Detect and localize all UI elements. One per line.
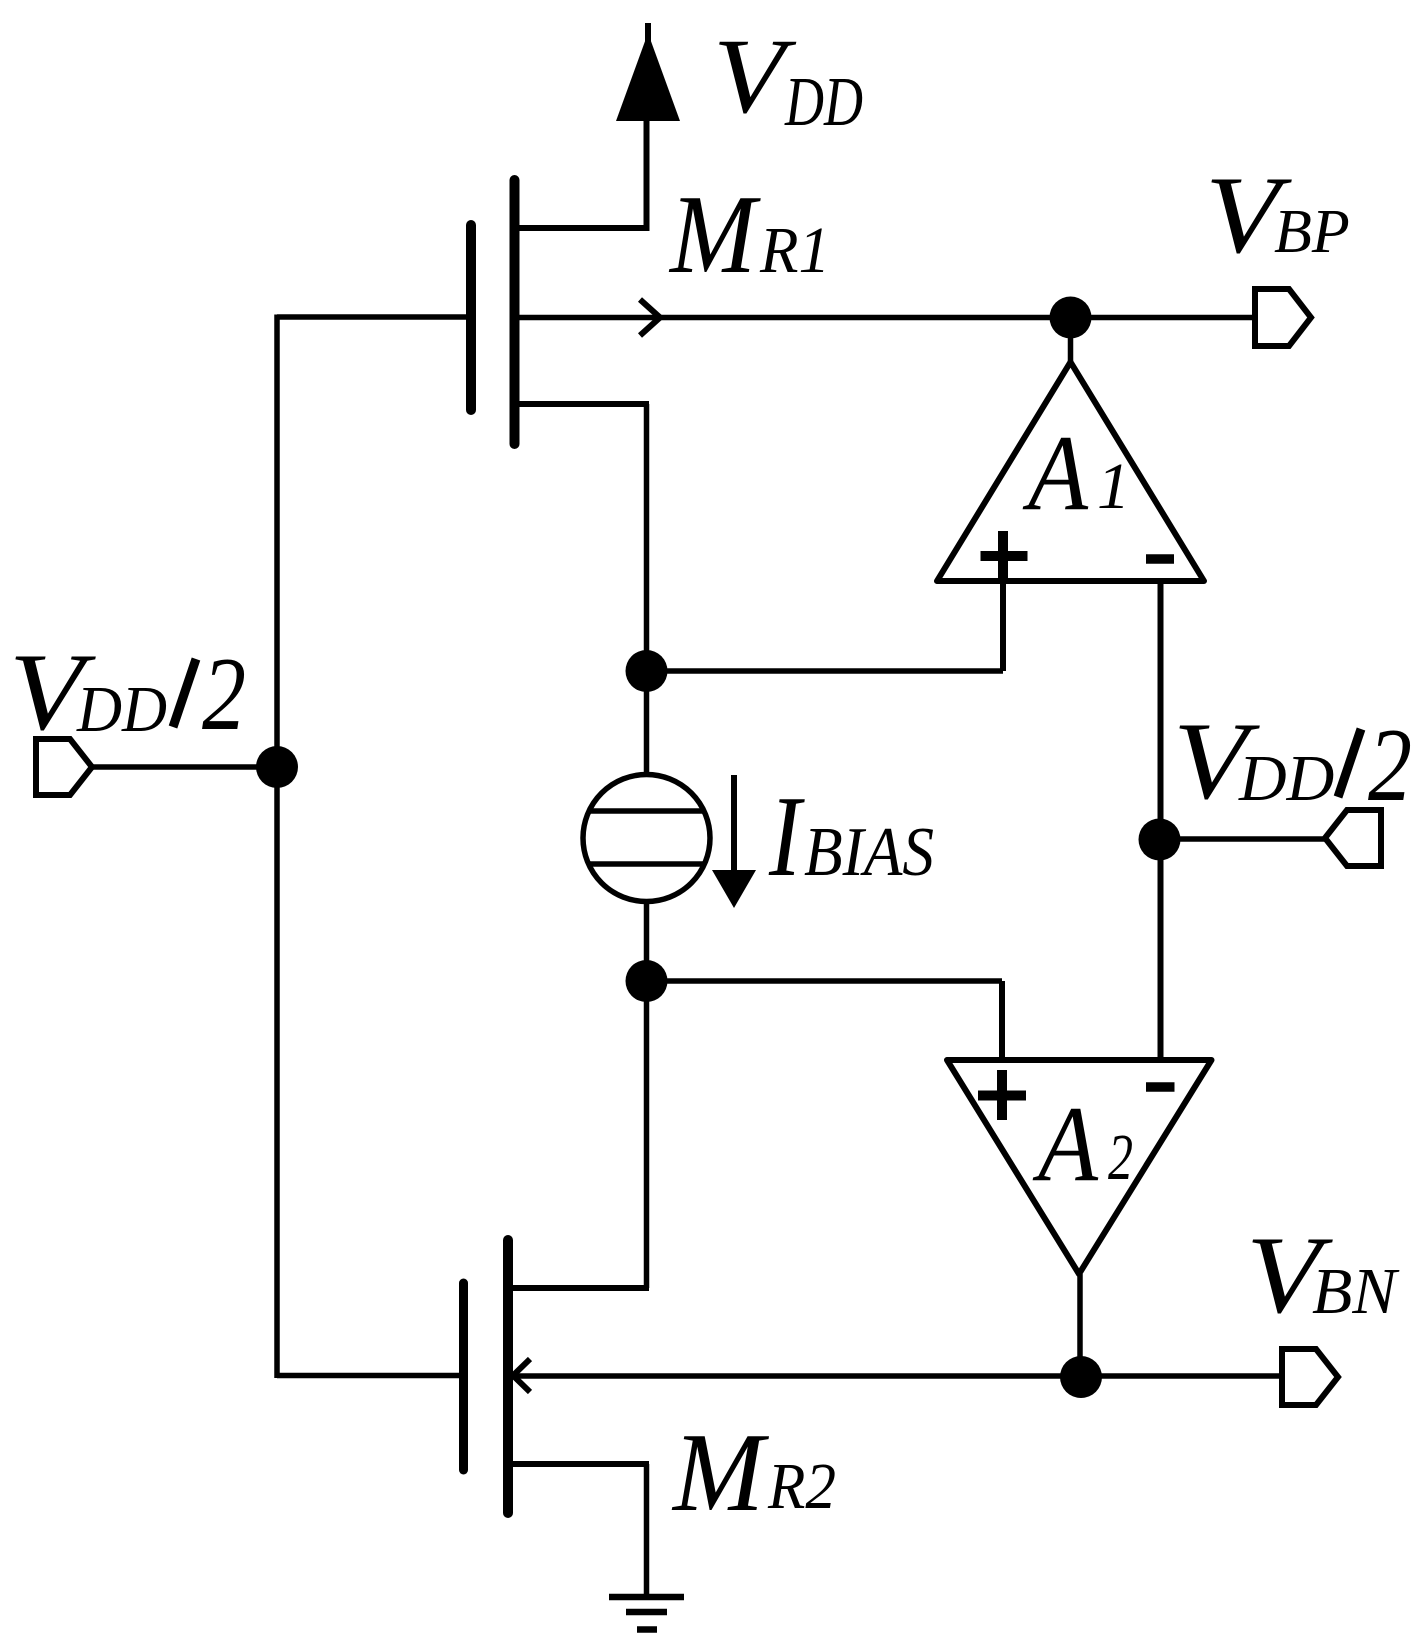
wire node to VDD/2 right terminal [1160, 836, 1326, 842]
wire MR1 bulk to VBP (node wire) [515, 315, 1256, 321]
wire node to A2 + input [647, 978, 1003, 984]
svg-text:1: 1 [1097, 450, 1130, 523]
wire MR1 drain down to current source [644, 404, 650, 777]
node dot VDD/2 right [1139, 819, 1181, 861]
A1 - input pin / wire down to VDD/2 node [1158, 581, 1164, 1060]
svg-text:A: A [1023, 414, 1089, 533]
svg-text:M: M [668, 173, 761, 297]
MR2 bulk arrowhead [513, 1359, 530, 1392]
node dot lower (A2 + input) [626, 960, 668, 1002]
svg-text:R1: R1 [759, 214, 830, 287]
A1 + input marking [981, 531, 1028, 581]
svg-text:BP: BP [1274, 198, 1350, 266]
terminal VDD/2 (left) [36, 739, 92, 795]
MR1 bulk arrowhead [640, 300, 660, 336]
VDD/2 left label [9, 631, 246, 753]
svg-text:DD: DD [784, 64, 863, 141]
svg-text:M: M [671, 1411, 770, 1535]
A2 label [1033, 1085, 1133, 1204]
A1 label [1023, 414, 1130, 533]
A2 output stub to VBN node [1077, 1274, 1083, 1377]
svg-text:2: 2 [1108, 1121, 1133, 1194]
A1 output stub to VBP node [1068, 318, 1074, 365]
wire VDD/2 to left rail [92, 764, 277, 770]
op-amp A2 (inverted) [947, 1060, 1212, 1274]
VBN label [1246, 1214, 1400, 1336]
VDD/2 right label [1173, 700, 1412, 823]
wire MR1 gate [277, 314, 467, 320]
IBIAS label [768, 773, 934, 900]
IBIAS current direction arrow [712, 775, 756, 908]
svg-text:BN: BN [1312, 1255, 1400, 1328]
A1 + input pin [1000, 581, 1006, 671]
wire MR2 bulk to VBN [513, 1373, 1282, 1379]
svg-text:2: 2 [1368, 706, 1412, 823]
terminal VBN [1282, 1349, 1338, 1405]
svg-text:A: A [1033, 1085, 1099, 1204]
op-amp A1 [937, 362, 1204, 581]
A2 - input marking [1146, 1082, 1175, 1092]
terminal VDD/2 (right, points left) [1325, 810, 1381, 866]
power VDD arrow symbol [616, 23, 680, 121]
wire VDD to MR1 source [514, 121, 647, 228]
ground [609, 1597, 684, 1630]
svg-text:2: 2 [202, 635, 246, 752]
A2 + input pin [999, 981, 1005, 1060]
node dot upper (MR1 drain / A1 + input) [626, 650, 668, 692]
svg-text:R2: R2 [767, 1450, 836, 1523]
wire current source to MR2 drain [644, 900, 650, 1288]
VBP label [1205, 154, 1350, 276]
current source IBIAS [583, 775, 710, 902]
wire MR2 gate [277, 1373, 460, 1379]
svg-text:DD: DD [76, 673, 167, 746]
transistor MR2 (NMOS, 4-terminal) [464, 1240, 650, 1513]
svg-text:I: I [768, 773, 805, 900]
terminal VBP [1255, 289, 1311, 346]
node dot left rail [256, 746, 298, 788]
MR1 label [668, 173, 830, 297]
transistor MR1 (PMOS, 4-terminal) [471, 180, 649, 444]
node dot VBP [1050, 297, 1092, 339]
node dot VBN [1060, 1356, 1102, 1398]
wire MR2 source to ground [644, 1464, 650, 1597]
svg-text:BIAS: BIAS [804, 814, 934, 891]
MR2 label [671, 1411, 836, 1535]
wire node to A1 + input [647, 668, 1004, 674]
VDD label [713, 18, 863, 141]
A2 + input marking [978, 1070, 1026, 1120]
A1 - input marking [1146, 554, 1174, 564]
svg-text:DD: DD [1238, 742, 1334, 815]
left rail wire (gate feedback) [274, 315, 280, 1379]
